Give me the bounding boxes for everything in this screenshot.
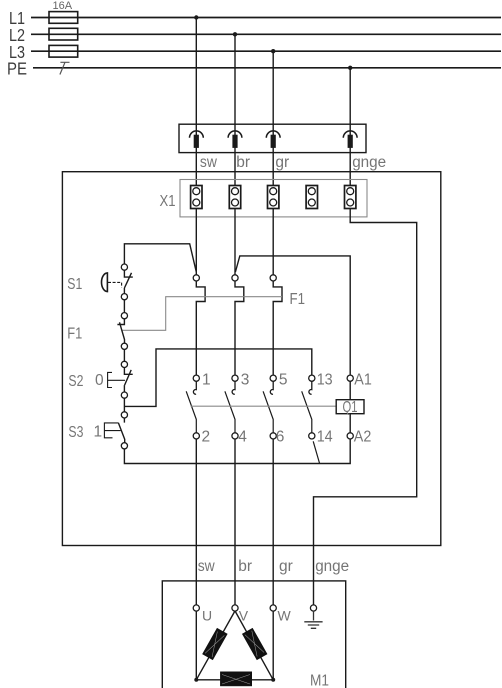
svg-text:W: W bbox=[278, 608, 292, 624]
wire L1 drop sw bbox=[195, 18, 197, 186]
wire contact 2 to motor U bbox=[195, 439, 197, 605]
node L1 tap bbox=[194, 15, 198, 19]
motor terminal W bbox=[270, 605, 291, 624]
motor terminal V bbox=[232, 605, 249, 624]
net PE bbox=[7, 59, 501, 79]
wire gnge X1:5 to motor PE bbox=[314, 209, 417, 606]
svg-text:br: br bbox=[238, 558, 252, 575]
cable gland 4 bbox=[343, 131, 357, 148]
contactor Q1 main contact 5-6 bbox=[263, 372, 287, 446]
stop button S2 bbox=[68, 361, 132, 398]
svg-text:gnge: gnge bbox=[352, 154, 386, 171]
net L2 bbox=[9, 25, 501, 45]
ground symbol bbox=[304, 611, 322, 628]
svg-text:U: U bbox=[202, 608, 212, 624]
svg-text:gr: gr bbox=[275, 154, 289, 171]
wire X1:2 to F1 pole2 bbox=[234, 209, 236, 276]
terminal strip X1 bbox=[160, 180, 368, 217]
cable gland 3 bbox=[266, 131, 280, 148]
overload mechanical linkage bbox=[122, 297, 282, 331]
svg-text:gnge: gnge bbox=[315, 558, 349, 575]
svg-text:sw: sw bbox=[198, 558, 216, 575]
wire X1:3 to F1 pole3 bbox=[272, 209, 274, 276]
wire X1:1 to F1 pole1 bbox=[195, 209, 197, 276]
winding V-W bbox=[243, 628, 267, 659]
terminal X1:2 bbox=[229, 186, 240, 209]
cable gland 1 bbox=[190, 131, 204, 148]
wire control tap to S1 bbox=[124, 244, 196, 272]
svg-text:F1: F1 bbox=[67, 326, 82, 343]
overload F1 pole 1 bbox=[193, 275, 205, 375]
node L3 tap bbox=[271, 49, 275, 53]
svg-text:A1: A1 bbox=[354, 372, 372, 389]
svg-text:0: 0 bbox=[95, 372, 104, 389]
terminal X1:3 bbox=[268, 186, 279, 209]
start button S3 bbox=[68, 412, 127, 449]
node PE tap bbox=[348, 66, 352, 70]
overload aux contact F1 bbox=[67, 313, 127, 350]
contactor Q1 main contact 3-4 bbox=[225, 372, 249, 446]
terminal X1:5 bbox=[345, 186, 356, 209]
node L2 tap bbox=[233, 32, 237, 36]
contactor mechanical linkage bbox=[191, 405, 337, 407]
fuse on L3 bbox=[49, 45, 78, 57]
svg-text:5: 5 bbox=[279, 372, 288, 389]
contactor Q1 main contact 1-2 bbox=[186, 372, 210, 446]
svg-text:3: 3 bbox=[241, 372, 250, 389]
wire S2 to S3 with branch bbox=[124, 349, 311, 412]
wire L2 drop br bbox=[234, 34, 236, 185]
wire L3 drop gr bbox=[272, 51, 274, 185]
svg-text:6: 6 bbox=[276, 428, 285, 445]
svg-text:br: br bbox=[236, 154, 250, 171]
svg-text:S1: S1 bbox=[67, 276, 82, 293]
svg-text:gr: gr bbox=[279, 558, 293, 575]
svg-text:M1: M1 bbox=[310, 673, 329, 688]
svg-text:sw: sw bbox=[200, 154, 218, 171]
motor M1 box bbox=[162, 581, 345, 688]
wire coil feed to A1 bbox=[235, 256, 350, 375]
terminal X1:4 bbox=[306, 186, 317, 209]
cable gland 2 bbox=[228, 131, 242, 148]
svg-text:X1: X1 bbox=[160, 193, 176, 210]
svg-text:14: 14 bbox=[317, 428, 333, 445]
wire S3 to A2 rail bbox=[124, 439, 350, 464]
svg-text:F1: F1 bbox=[290, 291, 306, 308]
svg-text:1: 1 bbox=[94, 424, 103, 441]
net L3 bbox=[9, 42, 501, 62]
overload F1 pole 2 bbox=[232, 275, 244, 375]
winding U-V bbox=[203, 628, 227, 659]
overload F1 pole 3 bbox=[270, 275, 282, 375]
terminal X1:1 bbox=[191, 186, 202, 209]
svg-text:Q1: Q1 bbox=[343, 399, 358, 416]
control cabinet enclosure bbox=[62, 172, 440, 546]
svg-text:13: 13 bbox=[317, 372, 333, 389]
cable gland box bbox=[179, 124, 366, 152]
PE conductor marking bbox=[60, 62, 70, 74]
fuse on L2 bbox=[49, 28, 78, 40]
motor terminal PE bbox=[310, 605, 316, 611]
winding U-W bbox=[220, 672, 251, 686]
wire contact 4 to motor V bbox=[234, 439, 236, 605]
delta winding wires bbox=[194, 611, 275, 682]
svg-text:PE: PE bbox=[7, 59, 27, 79]
svg-text:4: 4 bbox=[238, 428, 247, 445]
contactor coil Q1 bbox=[336, 372, 372, 446]
svg-text:S3: S3 bbox=[68, 424, 83, 441]
svg-text:16A: 16A bbox=[53, 0, 73, 12]
wire S1 to F1 aux bbox=[123, 300, 125, 313]
wire F1 aux to S2 bbox=[123, 349, 125, 361]
net L1 bbox=[9, 8, 501, 28]
svg-text:1: 1 bbox=[202, 372, 211, 389]
motor terminal U bbox=[193, 605, 212, 624]
svg-text:A2: A2 bbox=[354, 428, 372, 445]
emergency stop S1 bbox=[67, 264, 133, 300]
wire contact 6 to motor W bbox=[272, 439, 274, 605]
svg-text:2: 2 bbox=[202, 428, 211, 445]
wire PE drop gnge bbox=[349, 68, 351, 186]
svg-text:S2: S2 bbox=[68, 373, 83, 390]
contactor Q1 aux contact 13-14 bbox=[302, 372, 333, 464]
fuse 16A on L1 bbox=[49, 0, 78, 23]
